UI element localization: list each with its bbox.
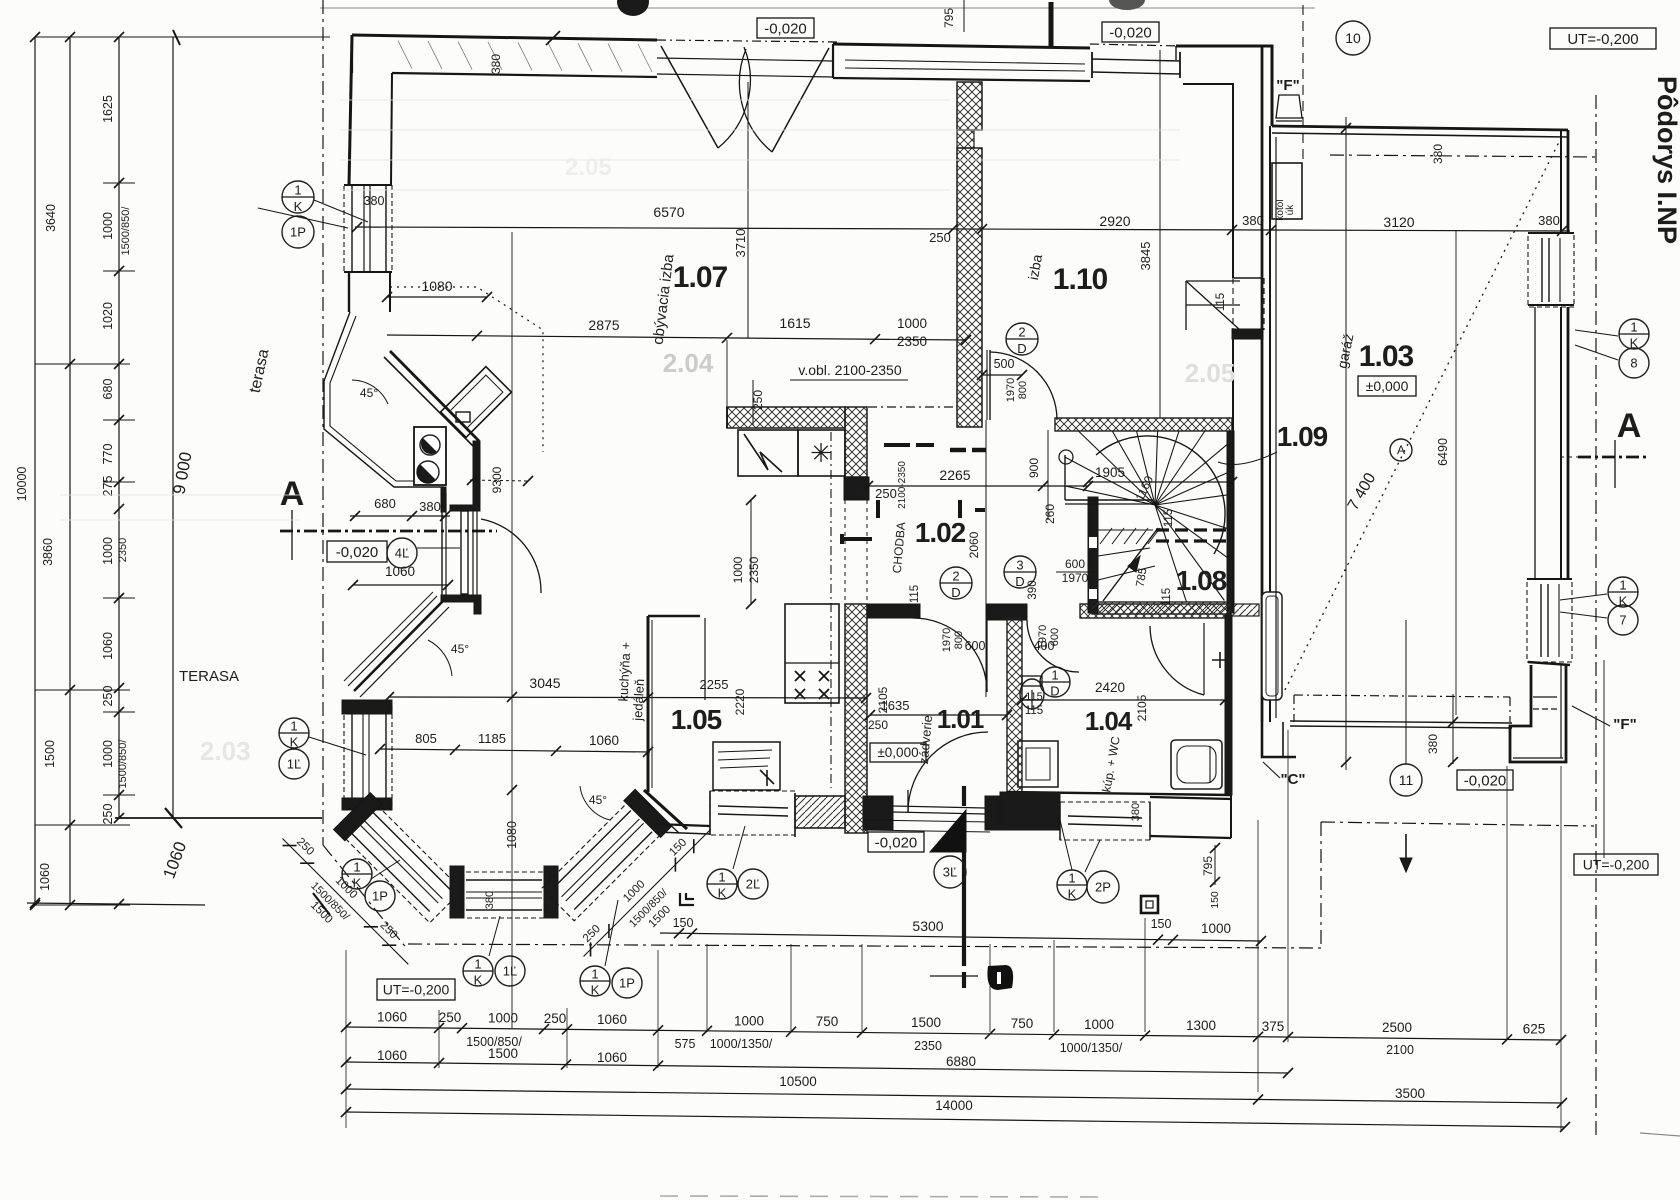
window bubbles bay s: [463, 956, 493, 986]
terrace 9000 line: [172, 37, 174, 818]
svg-text:7: 7: [1619, 613, 1626, 628]
svg-text:115: 115: [1161, 588, 1173, 606]
svg-text:1060: 1060: [385, 564, 415, 579]
svg-text:2350: 2350: [897, 334, 927, 349]
north wall mid segment: [833, 44, 1090, 48]
svg-text:4Ľ: 4Ľ: [395, 546, 409, 561]
svg-text:8: 8: [1630, 356, 1637, 371]
door bubble A garage: [1390, 439, 1412, 461]
nook diagonal wall: [390, 351, 479, 441]
svg-text:1000: 1000: [897, 316, 927, 331]
svg-text:2350: 2350: [747, 556, 761, 583]
dotted future line: [390, 287, 543, 452]
svg-text:D: D: [1015, 574, 1024, 589]
bold lintel dashes hall: [884, 443, 910, 447]
svg-text:2100-2350: 2100-2350: [897, 461, 908, 509]
svg-text:"C": "C": [1280, 771, 1305, 788]
island counter line: [651, 620, 653, 788]
window bubbles kitchen south: [707, 869, 737, 899]
axis 10 extension line: [1345, 117, 1347, 770]
dim 380 garage: [1452, 694, 1454, 764]
svg-text:2350: 2350: [117, 538, 129, 562]
svg-text:6570: 6570: [653, 204, 684, 220]
svg-text:250: 250: [868, 718, 888, 732]
svg-text:380: 380: [1431, 144, 1445, 164]
door 1.02-1.04 arc: [1027, 620, 1079, 672]
svg-text:380: 380: [1130, 803, 1142, 821]
north window top-right: [1092, 59, 1180, 61]
window bubbles 1.04 south: [1057, 870, 1087, 900]
stair arrow: [1103, 528, 1158, 601]
svg-text:375: 375: [1262, 1019, 1285, 1034]
svg-text:575: 575: [675, 1037, 696, 1051]
svg-text:10: 10: [1345, 30, 1361, 46]
west wall upper inner: [391, 73, 392, 185]
svg-text:1300: 1300: [1186, 1018, 1216, 1033]
axis bubble 10: [1336, 21, 1370, 55]
bold mark top: [1049, 2, 1054, 48]
svg-text:3710: 3710: [733, 229, 748, 258]
stove burner 2: [417, 461, 439, 483]
dim 3845 vline: [1159, 50, 1161, 418]
svg-text:±0,000: ±0,000: [1366, 378, 1409, 394]
row4 dim chain: [346, 1112, 1565, 1127]
svg-text:1500: 1500: [488, 1046, 518, 1061]
south wall 1.04 right band: [1150, 797, 1231, 799]
dim 795 top: [963, 0, 965, 32]
svg-text:-0,020: -0,020: [875, 834, 918, 851]
UT box bottom left: [377, 979, 455, 1000]
svg-text:10500: 10500: [779, 1074, 817, 1089]
svg-text:380: 380: [484, 891, 496, 909]
dash-dot hall top: [868, 406, 957, 408]
wall stair west: [1088, 497, 1098, 613]
svg-text:3640: 3640: [44, 204, 58, 232]
svg-text:250: 250: [101, 804, 115, 825]
svg-text:680: 680: [374, 496, 396, 511]
section B crossbar: [930, 975, 978, 977]
dim 250 vline 1.07: [752, 380, 754, 425]
svg-text:3845: 3845: [1138, 242, 1153, 271]
svg-text:1500/850/: 1500/850/: [117, 739, 129, 789]
page edge line top: [320, 7, 1315, 9]
svg-text:625: 625: [1523, 1022, 1546, 1037]
svg-text:275: 275: [101, 476, 115, 497]
bay SW diagonal window: [334, 793, 466, 925]
bay NW diagonal window: [354, 601, 443, 691]
svg-text:A: A: [280, 475, 305, 513]
svg-text:250: 250: [544, 1011, 567, 1026]
south wall kitchen segment: [655, 824, 710, 826]
svg-text:1185: 1185: [478, 731, 506, 746]
left small hlines: [35, 363, 130, 365]
svg-text:1.02: 1.02: [915, 517, 966, 548]
dim 805 1185 1060 bay: [380, 749, 650, 752]
kitchen-hall wall upper hatched: [845, 407, 867, 477]
dim 1635 etc 1.01: [870, 714, 1007, 716]
svg-text:11: 11: [1399, 772, 1414, 788]
svg-text:3500: 3500: [1395, 1086, 1425, 1101]
svg-text:1P: 1P: [372, 889, 388, 904]
svg-text:1: 1: [1068, 871, 1075, 886]
dim 150 5300 150 1000: [660, 933, 1261, 941]
dash-dot east jog vertical: [1320, 822, 1322, 948]
garage SE wall block: [1510, 665, 1566, 762]
left chain mid: [69, 37, 71, 905]
window leader west top: [258, 208, 348, 228]
svg-text:2.04: 2.04: [663, 348, 714, 378]
door bubble 2D hall: [940, 567, 972, 599]
south wall pier right of door: [985, 796, 1015, 830]
stair upper flight: [1064, 455, 1066, 500]
dim 3710 vline: [747, 82, 749, 338]
chimney outside east wall: [1262, 592, 1282, 700]
svg-text:2.03: 2.03: [200, 736, 251, 766]
dash-dot diagonal to bay: [323, 845, 408, 950]
dim 6570 chain: [355, 227, 1570, 231]
west wall upper outer: [349, 35, 352, 185]
east house wall outer: [1261, 46, 1264, 722]
garage window east 1: [1528, 233, 1574, 307]
svg-text:2.05: 2.05: [1185, 358, 1236, 388]
north wall west cap: [351, 35, 353, 73]
dim 900 260 vline: [1047, 430, 1049, 520]
svg-text:1060: 1060: [38, 863, 52, 891]
garage diagonal dotted: [1285, 140, 1560, 690]
double entrance door threshold: [657, 58, 833, 61]
svg-text:K: K: [591, 982, 600, 997]
svg-text:750: 750: [1011, 1016, 1034, 1031]
entrance door left leaf: [661, 46, 718, 148]
kitchen window W4: [710, 791, 795, 835]
bold lintel dashes hall right: [958, 500, 962, 518]
svg-text:1970: 1970: [1005, 378, 1017, 402]
bleed-through faint lines: [340, 99, 950, 101]
svg-text:K: K: [290, 734, 299, 749]
north-east corner wall: [1176, 46, 1272, 126]
dim 680 380 nook: [350, 515, 450, 517]
svg-text:250: 250: [875, 486, 897, 501]
svg-text:795: 795: [942, 8, 956, 28]
svg-text:3Ľ: 3Ľ: [943, 865, 957, 880]
leader 1.09: [1218, 452, 1277, 464]
door 1.10 south: [989, 350, 991, 420]
svg-text:v.obl. 2100-2350: v.obl. 2100-2350: [798, 362, 901, 378]
svg-text:1000: 1000: [101, 740, 115, 768]
svg-text:2: 2: [1018, 325, 1025, 340]
stove burner 1: [420, 435, 440, 455]
UT box top right: [1550, 28, 1656, 49]
kitchen island wall: [647, 616, 650, 792]
bay south window: [458, 872, 550, 918]
elevation box terrace: [327, 541, 387, 562]
room 1.03 zero box: [1358, 376, 1416, 396]
svg-text:150: 150: [1209, 891, 1221, 909]
svg-text:2.05: 2.05: [565, 154, 612, 181]
garage door threshold: [1290, 721, 1512, 723]
door bubble 3L: [934, 856, 966, 888]
terrace edge south: [115, 817, 322, 819]
svg-text:1P: 1P: [619, 976, 635, 991]
corner mark bottom right: [1640, 1133, 1680, 1136]
door cross 1.04: [1212, 652, 1228, 668]
svg-text:1080: 1080: [505, 821, 519, 849]
svg-text:45°: 45°: [451, 642, 469, 656]
svg-text:2255: 2255: [700, 677, 729, 692]
stair lower flight lines: [1098, 529, 1153, 531]
section A line east: [1578, 456, 1650, 459]
svg-text:1970: 1970: [941, 628, 953, 652]
dim 2420 1.04: [1022, 699, 1225, 701]
thin line right of garage: [1603, 660, 1605, 858]
dim 2265 chain hall: [868, 485, 1088, 487]
svg-text:1Ľ: 1Ľ: [287, 757, 301, 772]
svg-text:1: 1: [718, 870, 725, 885]
svg-text:680: 680: [101, 379, 115, 400]
dim 1060 door: [353, 584, 448, 586]
extension x727: [726, 340, 728, 407]
kitchen-hall wall lower hatched: [845, 604, 867, 833]
dim 795 south: [1214, 845, 1216, 885]
svg-text:TERASA: TERASA: [179, 668, 239, 685]
svg-text:1: 1: [591, 967, 598, 982]
svg-text:3860: 3860: [41, 538, 55, 566]
svg-text:900: 900: [1027, 458, 1041, 478]
svg-text:150: 150: [673, 916, 694, 930]
svg-text:1000/1350/: 1000/1350/: [710, 1037, 773, 1051]
door 1.02-1.01 arc: [913, 618, 987, 692]
door 1.10 east triangle leaf: [1186, 281, 1240, 330]
svg-text:1000: 1000: [731, 556, 745, 583]
wall 1.01/1.04 hatched: [1007, 618, 1022, 792]
dim 3045: [388, 697, 866, 698]
house SE corner: [1262, 722, 1296, 757]
elevation box garage south: [1457, 770, 1513, 790]
svg-text:A: A: [1617, 407, 1642, 445]
svg-text:1970: 1970: [1062, 571, 1089, 585]
dash-dot overhang kitchen: [830, 432, 832, 788]
svg-text:9300: 9300: [490, 466, 504, 493]
wall SE corner hatched: [1229, 604, 1259, 616]
terrace door leaf: [461, 511, 468, 594]
svg-text:1: 1: [1051, 668, 1058, 683]
north wall hatch: [398, 41, 412, 69]
diag dim chain bay right: [572, 818, 733, 979]
svg-text:115: 115: [909, 585, 921, 603]
room 1.01 zero box: [870, 743, 926, 762]
svg-text:805: 805: [415, 731, 437, 746]
nook vent mark: [456, 412, 470, 422]
svg-text:2: 2: [952, 569, 959, 584]
north wall west segment outer: [352, 35, 657, 40]
svg-text:"F": "F": [1613, 716, 1636, 733]
entrance door right leaf: [772, 48, 829, 152]
svg-text:2105: 2105: [876, 686, 890, 713]
kitchen stove 4 burners: [785, 604, 839, 703]
svg-text:750: 750: [816, 1014, 839, 1029]
wall 1.04 top hatched: [1080, 604, 1229, 618]
hall south wall segment B: [987, 604, 1027, 620]
svg-text:1.04: 1.04: [1085, 706, 1133, 736]
entrance steps: [864, 820, 990, 822]
kitchen-hall wall black piece: [844, 477, 869, 500]
svg-text:2060: 2060: [967, 531, 981, 558]
south wall 1.04 left: [1007, 792, 1231, 795]
svg-text:3120: 3120: [1383, 214, 1414, 230]
svg-text:1.09: 1.09: [1277, 421, 1328, 452]
svg-text:3045: 3045: [529, 675, 560, 691]
svg-text:770: 770: [101, 444, 115, 465]
svg-text:380: 380: [1538, 213, 1560, 228]
stair treads fan: [1065, 486, 1155, 505]
svg-text:1905: 1905: [1095, 465, 1125, 480]
garage north wall: [1272, 126, 1568, 130]
entrance door threshold 1.01: [893, 806, 985, 808]
svg-text:1.01: 1.01: [937, 704, 984, 734]
svg-text:UT=-0,200: UT=-0,200: [1583, 856, 1650, 872]
small square symbol: [1141, 896, 1158, 913]
G mark: [680, 893, 694, 905]
svg-text:úk: úk: [1285, 204, 1296, 216]
bay east diagonal wall: [644, 790, 687, 829]
svg-text:1.07: 1.07: [673, 261, 728, 294]
svg-text:1060: 1060: [377, 1048, 407, 1063]
row2 dim chain: [346, 1062, 1288, 1073]
stair landing hatch: [1100, 528, 1112, 544]
svg-text:380: 380: [1426, 734, 1440, 754]
nook south piers: [473, 441, 480, 509]
svg-text:2105: 2105: [1135, 694, 1149, 721]
bottom extension lines: [345, 950, 347, 1128]
svg-text:150: 150: [1151, 917, 1172, 931]
dim 1080 bay vline: [511, 232, 513, 1028]
elevation box top left: [757, 18, 814, 38]
scan blob top: [617, 0, 649, 16]
svg-text:260: 260: [1043, 504, 1057, 524]
svg-text:2265: 2265: [939, 467, 970, 483]
nook outer contour: [324, 312, 444, 487]
bottom scan dashes: [660, 1196, 1100, 1197]
svg-text:K: K: [294, 199, 303, 214]
svg-text:UT=-0,200: UT=-0,200: [1567, 31, 1638, 48]
svg-text:2220: 2220: [733, 688, 747, 715]
dash-dot axis west: [322, 0, 324, 845]
svg-text:10000: 10000: [15, 467, 29, 502]
svg-text:2875: 2875: [588, 317, 619, 333]
svg-text:K: K: [1068, 886, 1077, 901]
wall 1.08 south hatched: [1092, 602, 1231, 614]
svg-text:6880: 6880: [946, 1054, 976, 1069]
garage interior east face: [1534, 307, 1536, 579]
north wall west segment inner: [392, 73, 657, 77]
svg-text:1000/1350/: 1000/1350/: [1060, 1041, 1123, 1055]
west wall below window: [348, 272, 350, 312]
section B triangle: [930, 810, 966, 852]
washbasin 1.04: [1018, 741, 1058, 787]
garage east wall upper: [1560, 130, 1562, 233]
stair lower treads: [1155, 505, 1227, 528]
svg-text:600: 600: [965, 639, 986, 653]
svg-text:1060: 1060: [377, 1009, 407, 1024]
hall south wall segment A: [867, 604, 920, 618]
kitchen stove symbol: [798, 430, 845, 476]
svg-text:45°: 45°: [589, 793, 607, 807]
svg-text:250: 250: [439, 1010, 462, 1025]
svg-text:1000: 1000: [1084, 1017, 1114, 1032]
svg-text:1.03: 1.03: [1359, 340, 1414, 373]
garage east wall mid: [1560, 307, 1562, 579]
row1 dim chain: [346, 1027, 1561, 1040]
axis 10 dash line: [1302, 5, 1304, 160]
svg-text:115: 115: [1163, 509, 1175, 527]
wall 1.10 west hatched: [957, 82, 982, 130]
kitchen lower counter sink: [713, 742, 780, 790]
svg-text:2350: 2350: [914, 1039, 942, 1053]
svg-text:1: 1: [474, 957, 481, 972]
svg-text:1000: 1000: [101, 537, 115, 565]
svg-text:-0,020: -0,020: [1109, 24, 1152, 41]
svg-text:380: 380: [419, 499, 441, 514]
south wall pier left of door: [863, 796, 893, 830]
section B blob: [987, 965, 1013, 990]
svg-text:1000: 1000: [734, 1013, 764, 1028]
dim 2060 vline: [985, 420, 987, 697]
dim 1000 2350 vline kitchen: [750, 500, 752, 604]
east wall inner dashes: [1232, 278, 1234, 330]
left chains top line: [35, 36, 330, 38]
toilet 1.04: [1020, 679, 1044, 709]
svg-text:1020: 1020: [101, 302, 115, 330]
svg-text:1615: 1615: [779, 315, 810, 331]
svg-text:1060: 1060: [597, 1012, 627, 1027]
section B line: [962, 786, 966, 806]
svg-text:1625: 1625: [101, 95, 115, 123]
east wall inner lower: [1232, 330, 1234, 612]
fireplace stove block: [414, 427, 446, 485]
svg-text:2P: 2P: [1095, 880, 1111, 895]
svg-text:2100: 2100: [1386, 1043, 1414, 1057]
svg-text:1970: 1970: [1037, 625, 1049, 649]
window 1.04 south: [1060, 802, 1150, 840]
dim 2875 1615 chain: [387, 335, 966, 340]
dash-dot north-east boundary: [1330, 155, 1596, 157]
svg-text:250: 250: [929, 230, 951, 245]
tick top wall: [546, 31, 560, 45]
svg-text:1000: 1000: [488, 1011, 518, 1026]
svg-text:600: 600: [1065, 557, 1085, 571]
stair walkline arc: [1096, 436, 1225, 554]
wall 1.04 east: [1225, 615, 1232, 795]
svg-text:500: 500: [994, 357, 1015, 371]
svg-text:1: 1: [1630, 320, 1637, 335]
elevation box top right: [1102, 22, 1159, 42]
terrace door sill corner: [441, 595, 481, 602]
arrow entry garage: [1405, 834, 1407, 868]
door bubble 3D hall: [1004, 556, 1036, 588]
svg-text:✳: ✳: [810, 438, 832, 468]
svg-text:K: K: [718, 885, 727, 900]
window bubbles west bay: [279, 718, 309, 748]
kotol box: [1272, 163, 1302, 219]
svg-text:±0,000: ±0,000: [877, 745, 918, 760]
svg-text:1: 1: [1619, 578, 1626, 593]
svg-text:380: 380: [364, 194, 385, 208]
svg-text:115: 115: [1025, 691, 1043, 703]
kitchen counter with sink upper: [738, 430, 798, 476]
svg-text:800: 800: [1017, 381, 1029, 399]
svg-text:1000: 1000: [101, 212, 115, 240]
dash-dot east boundary vertical: [1595, 95, 1597, 1140]
